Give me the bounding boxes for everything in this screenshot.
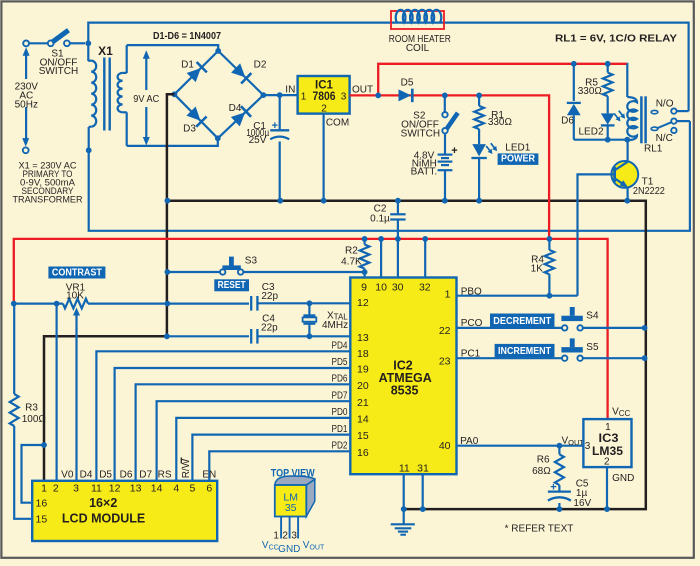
- svg-text:EN: EN: [202, 470, 216, 481]
- svg-text:LED2: LED2: [578, 126, 603, 137]
- svg-text:N/C: N/C: [656, 133, 673, 144]
- capacitor C4 22p: [167, 335, 249, 337]
- svg-text:2: 2: [53, 483, 59, 495]
- svg-text:LM35: LM35: [592, 446, 624, 458]
- wire mains live top rail: [88, 23, 688, 112]
- svg-text:1: 1: [605, 422, 611, 433]
- svg-text:100Ω: 100Ω: [22, 414, 47, 425]
- svg-text:IC3: IC3: [599, 433, 619, 445]
- switch S5: [457, 357, 562, 359]
- svg-text:N/O: N/O: [656, 98, 674, 109]
- wire IC1 OUT red rail: [350, 95, 549, 239]
- diode D4: [230, 106, 251, 127]
- capacitor C1: [279, 95, 281, 130]
- svg-text:3: 3: [291, 530, 297, 541]
- svg-text:PD7: PD7: [332, 390, 348, 401]
- svg-text:330Ω: 330Ω: [488, 117, 513, 128]
- capacitor C5: [548, 490, 571, 492]
- wire bridge edges: [174, 51, 218, 94]
- svg-text:D5: D5: [401, 78, 414, 89]
- wire D6/LED2 bottom to coil: [574, 139, 628, 141]
- wire IC1 COM to ground: [323, 114, 325, 201]
- wire IC2 pin11/31 to ground: [403, 474, 405, 509]
- battery 4.8V NiMH: [444, 133, 446, 154]
- op-amp IC1 7806 regulator: [298, 76, 350, 114]
- svg-text:11: 11: [399, 463, 410, 475]
- svg-text:COIL: COIL: [406, 43, 430, 54]
- svg-text:V0: V0: [61, 470, 74, 481]
- wire PA0 to IC3: [457, 445, 584, 447]
- svg-text:35: 35: [285, 502, 297, 514]
- svg-text:7806: 7806: [313, 91, 336, 103]
- svg-text:D1-D6 = 1N4007: D1-D6 = 1N4007: [153, 30, 221, 42]
- svg-text:SWITCH: SWITCH: [401, 129, 440, 140]
- switch S3 (reset): [167, 271, 219, 273]
- label INCREMENT: [495, 344, 555, 358]
- svg-text:40: 40: [439, 440, 451, 452]
- svg-text:12: 12: [357, 297, 369, 309]
- svg-text:PCO: PCO: [461, 318, 483, 329]
- ground: [403, 509, 405, 524]
- svg-text:R/W: R/W: [181, 458, 192, 478]
- svg-text:GND: GND: [278, 544, 300, 555]
- svg-text:22: 22: [439, 325, 451, 337]
- svg-text:1K: 1K: [531, 264, 544, 275]
- svg-text:14: 14: [357, 413, 369, 425]
- svg-text:RL1: RL1: [644, 144, 663, 155]
- svg-text:15: 15: [36, 514, 48, 526]
- svg-text:0.1µ: 0.1µ: [370, 214, 390, 225]
- svg-text:6: 6: [206, 483, 212, 495]
- svg-text:INCREMENT: INCREMENT: [498, 345, 551, 357]
- svg-text:D4: D4: [229, 103, 242, 114]
- svg-text:4: 4: [173, 483, 179, 495]
- svg-text:TRANSFORMER: TRANSFORMER: [13, 194, 83, 205]
- wire IC3 GND: [606, 467, 608, 509]
- svg-text:R2: R2: [345, 245, 358, 256]
- svg-text:D2: D2: [254, 60, 267, 71]
- svg-text:16: 16: [36, 498, 48, 510]
- resistor R3 100ohm: [13, 304, 15, 394]
- svg-text:1: 1: [445, 288, 451, 300]
- svg-text:68Ω: 68Ω: [532, 466, 551, 477]
- node bridge corners: [172, 91, 178, 97]
- svg-text:14: 14: [151, 483, 163, 495]
- svg-text:10K: 10K: [66, 291, 84, 302]
- svg-text:32: 32: [419, 281, 431, 293]
- svg-text:2: 2: [604, 456, 610, 467]
- wire mains neutral rail: [89, 121, 690, 231]
- resistor R2 4.7K: [362, 236, 368, 242]
- svg-text:330Ω: 330Ω: [578, 86, 603, 97]
- svg-text:+: +: [272, 120, 278, 132]
- svg-text:11: 11: [91, 483, 102, 495]
- crystal XTAL 4MHz: [308, 303, 310, 315]
- svg-text:BATT.: BATT.: [411, 166, 437, 177]
- svg-text:13: 13: [357, 332, 369, 344]
- svg-text:PD6: PD6: [332, 374, 348, 385]
- label RESET: [214, 279, 249, 291]
- switch S4: [457, 327, 562, 329]
- 230V AC measurement arrow: [25, 50, 27, 79]
- wire ground rail (black): [167, 201, 645, 509]
- svg-text:22p: 22p: [261, 291, 278, 302]
- diode D2: [231, 63, 252, 84]
- svg-text:SWITCH: SWITCH: [39, 66, 78, 77]
- svg-text:IC1: IC1: [315, 80, 334, 92]
- svg-text:R3: R3: [25, 403, 38, 414]
- svg-text:PC1: PC1: [461, 348, 481, 359]
- switch S2: [442, 93, 448, 99]
- wire T1 base to PBO: [578, 174, 615, 295]
- svg-text:23: 23: [439, 356, 451, 368]
- node junction S1/transformer: [85, 40, 91, 46]
- svg-text:2: 2: [321, 104, 327, 115]
- svg-text:31: 31: [417, 463, 429, 475]
- svg-text:22p: 22p: [261, 323, 278, 334]
- svg-text:D7: D7: [139, 470, 152, 481]
- svg-text:21: 21: [357, 397, 369, 409]
- svg-text:8535: 8535: [391, 384, 419, 398]
- op-amp IC3 LM35: [583, 419, 631, 467]
- svg-text:PD0: PD0: [332, 407, 348, 418]
- wire red upper rail to relay: [378, 64, 627, 96]
- svg-text:3: 3: [341, 92, 347, 103]
- transistor T1 2N2222: [611, 161, 638, 188]
- svg-text:CONTRAST: CONTRAST: [52, 266, 102, 278]
- relay coil RL1: [626, 64, 629, 97]
- wire +V to LCD pin2: [55, 304, 57, 481]
- svg-text:1: 1: [41, 483, 47, 495]
- svg-text:1: 1: [301, 92, 307, 103]
- svg-text:PD4: PD4: [332, 341, 348, 352]
- svg-text:16V: 16V: [573, 498, 591, 509]
- svg-text:R6: R6: [537, 455, 550, 466]
- svg-text:VOUT: VOUT: [562, 436, 585, 448]
- label DECREMENT: [490, 314, 555, 328]
- svg-text:20: 20: [357, 380, 369, 392]
- svg-text:* REFER TEXT: * REFER TEXT: [505, 524, 574, 535]
- resistor R4 1K: [547, 236, 553, 242]
- svg-text:18: 18: [357, 348, 369, 360]
- svg-text:15: 15: [357, 430, 369, 442]
- svg-text:OUT: OUT: [352, 85, 373, 96]
- diode D6: [571, 61, 577, 67]
- wire secondary to bridge: [127, 45, 219, 51]
- svg-text:12: 12: [109, 483, 121, 495]
- svg-text:PBO: PBO: [461, 286, 482, 297]
- svg-text:+: +: [451, 145, 457, 157]
- svg-text:S5: S5: [586, 342, 599, 353]
- svg-text:4MHz: 4MHz: [322, 320, 348, 331]
- resistor R6 68ohm: [558, 446, 560, 455]
- resistor R5 330ohm: [605, 61, 611, 67]
- svg-text:D6: D6: [561, 116, 574, 127]
- svg-text:50Hz: 50Hz: [15, 100, 38, 111]
- svg-text:RESET: RESET: [218, 279, 246, 291]
- wire red main rail: [14, 239, 608, 419]
- svg-text:D3: D3: [183, 124, 196, 135]
- op-amp IC2 ATMEGA8535: [350, 278, 456, 475]
- wire bridge+ to IC1 IN: [263, 94, 297, 96]
- svg-text:D1: D1: [181, 60, 194, 71]
- 9V AC measurement arrow: [145, 53, 147, 90]
- relay contacts N/O N/C: [651, 110, 658, 113]
- svg-text:2N2222: 2N2222: [633, 186, 665, 197]
- svg-text:16×2: 16×2: [89, 496, 117, 510]
- svg-text:D4: D4: [80, 470, 93, 481]
- svg-text:D6: D6: [120, 470, 133, 481]
- svg-text:3: 3: [73, 483, 79, 495]
- capacitor C3 22p: [250, 296, 252, 311]
- svg-text:+: +: [550, 482, 556, 494]
- svg-text:9V AC: 9V AC: [133, 94, 159, 105]
- resistor R1 330ohm: [476, 93, 482, 99]
- node mains input terminals: [23, 41, 29, 47]
- room heater coil: [391, 11, 444, 29]
- svg-text:S4: S4: [586, 311, 599, 322]
- svg-text:PA0: PA0: [460, 436, 479, 447]
- svg-text:13: 13: [130, 483, 142, 495]
- label CONTRAST: [48, 267, 105, 279]
- LED2: [607, 96, 609, 113]
- svg-text:RS: RS: [158, 470, 172, 481]
- svg-text:25V: 25V: [249, 135, 267, 146]
- LCD module 16x2: [32, 481, 217, 541]
- LED1: [472, 144, 486, 156]
- svg-text:D5: D5: [99, 470, 112, 481]
- svg-text:DECREMENT: DECREMENT: [493, 315, 551, 327]
- svg-text:2: 2: [282, 530, 288, 541]
- svg-text:PD1: PD1: [332, 424, 348, 435]
- svg-text:16: 16: [357, 447, 369, 459]
- svg-text:19: 19: [357, 363, 369, 375]
- svg-text:S3: S3: [245, 256, 258, 267]
- wire gnd to LCD pin16: [22, 445, 45, 503]
- diode D1: [186, 62, 207, 83]
- wire PBO (pin1): [457, 295, 578, 297]
- svg-text:30: 30: [392, 281, 404, 293]
- svg-text:IN: IN: [285, 85, 295, 96]
- svg-text:RL1 = 6V, 1C/O RELAY: RL1 = 6V, 1C/O RELAY: [555, 33, 677, 45]
- svg-text:10: 10: [375, 281, 387, 293]
- wire IC2 power pins to red rail: [380, 239, 382, 278]
- capacitor C2: [395, 198, 401, 204]
- wire DC- (black) from bridge to ground rail: [44, 94, 174, 481]
- svg-text:PD2: PD2: [332, 441, 348, 452]
- wire PD lines to LCD: [96, 351, 350, 481]
- svg-text:5: 5: [189, 483, 195, 495]
- svg-text:9: 9: [361, 281, 367, 293]
- svg-text:1: 1: [273, 530, 279, 541]
- potentiometer VR1 10K: [14, 303, 63, 305]
- svg-text:4.7K: 4.7K: [341, 257, 362, 268]
- svg-text:LCD MODULE: LCD MODULE: [62, 512, 145, 526]
- diode D3: [186, 106, 207, 127]
- svg-text:PD5: PD5: [332, 357, 348, 368]
- svg-text:GND: GND: [612, 473, 634, 484]
- switch S1: [30, 42, 48, 44]
- svg-text:COM: COM: [326, 118, 349, 129]
- svg-text:POWER: POWER: [501, 153, 535, 165]
- svg-text:3: 3: [585, 441, 591, 452]
- diode D5: [399, 89, 413, 103]
- svg-text:X1: X1: [98, 44, 113, 58]
- label POWER: [498, 153, 539, 165]
- svg-text:VCC: VCC: [612, 407, 630, 419]
